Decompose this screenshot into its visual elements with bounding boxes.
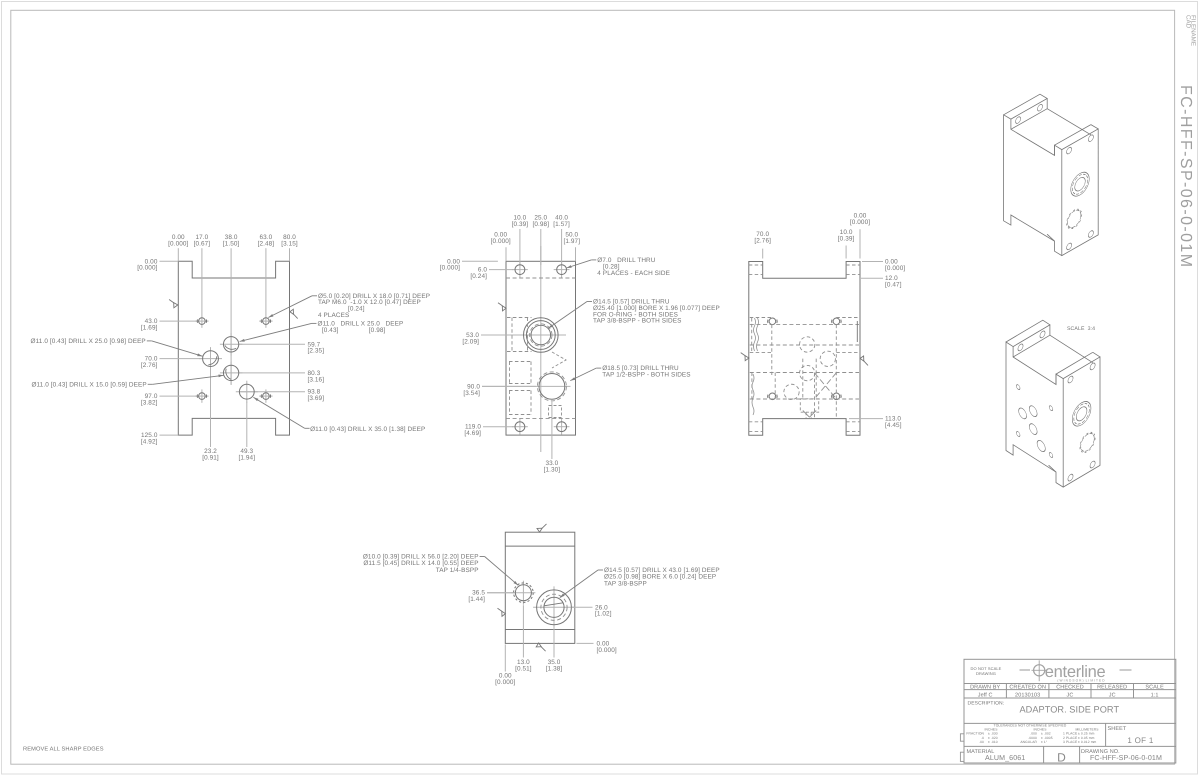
svg-text:[2.48]: [2.48] [258,240,275,247]
iso view 2 port1 o-ring port [1072,397,1091,430]
bottom view left surface flag [502,611,506,616]
iso view 2 top ear edges [1006,320,1050,346]
svg-text:[1.30]: [1.30] [544,466,561,473]
svg-text:3 PLACE: 3 PLACE [1063,740,1078,744]
svg-text:[0.39]: [0.39] [512,221,529,228]
centerline logo [1020,669,1031,671]
front view leader to M6 hole [312,295,317,297]
iso view 1 top ear edges [1004,94,1048,119]
svg-text:[0.000]: [0.000] [850,219,870,226]
bottom view leader to port1 [480,556,485,558]
iso view 1 outline [1004,115,1099,256]
svg-text:FC-HFF-SP-06-0-01M: FC-HFF-SP-06-0-01M [1177,85,1194,268]
back view hidden tap box small [800,399,818,412]
front view leader to O11 hole (38,80.3) [148,383,153,385]
bottom view outline [505,532,575,643]
svg-text:± .010: ± .010 [988,740,998,744]
side port view port1 O-ring bore circles [524,318,559,353]
svg-text:[1.02]: [1.02] [595,611,612,618]
svg-text:[0.98]: [0.98] [533,221,550,228]
iso view 1 port face bolt holes [1067,146,1072,155]
back view hidden lines in tabs [749,264,763,266]
svg-text:SCALE 3:4: SCALE 3:4 [1067,326,1095,332]
svg-text:TAP 3/8-BSPP - BOTH SIDES: TAP 3/8-BSPP - BOTH SIDES [593,318,681,325]
svg-text:[2.76]: [2.76] [141,362,158,369]
iso view 1 ear wall bolt hole exits [1016,116,1021,125]
svg-text:[3.54]: [3.54] [463,390,480,397]
front view outline [178,261,289,435]
front view leader to O11 hole (49.3,93.8) [305,427,310,429]
bottom view top surface flag [537,528,542,532]
iso view 2 front face holes [1016,384,1020,391]
svg-text:FC-HFF-SP-06-0-01M: FC-HFF-SP-06-0-01M [1090,754,1162,762]
back view hidden port lines [750,324,859,326]
svg-text:[0.98]: [0.98] [369,327,386,334]
back view break lines [754,318,756,351]
svg-text:20130103: 20130103 [1015,693,1040,699]
svg-text:1 OF 1: 1 OF 1 [1127,736,1154,745]
svg-text:FILENAME: FILENAME [1190,15,1197,46]
svg-text:JC: JC [1109,693,1116,699]
bottom view dim 13.0 [522,605,524,657]
svg-text:[4.45]: [4.45] [885,422,902,429]
svg-text:TAP 1/4-BSPP: TAP 1/4-BSPP [436,567,479,574]
svg-text:[0.000]: [0.000] [137,265,157,272]
iso view 1 port2 tapped port [1067,207,1080,230]
side port view leader to O7 hole [591,259,596,261]
side port view leader to port1 [587,301,592,303]
svg-text:[0.000]: [0.000] [597,647,617,654]
side port view centerlines port2 [482,385,571,387]
title block bottom column lines [1043,746,1045,763]
back view hidden vertical drill small [802,359,804,399]
back view right surface flag [860,356,864,361]
side port view centerlines port1 [481,334,566,336]
svg-text:[4.92]: [4.92] [141,438,158,445]
fold marks [960,734,964,741]
svg-text:± 1°: ± 1° [1041,740,1048,744]
iso view 1 front vertical edge [1061,150,1063,256]
back view hidden drill tip cross [815,373,837,399]
iso view 2 ear wall bolt hole exits [1018,343,1023,352]
svg-text:[1.57]: [1.57] [553,221,570,228]
bottom view dim 36.5 [487,592,515,594]
front view right surface flag [290,309,294,314]
svg-text:RELEASED: RELEASED [1097,685,1127,691]
bottom view bottom surface flag [536,643,541,647]
title block row lines [964,683,1176,685]
iso view 2 port2 tapped port [1081,430,1095,454]
side port view left dimension lines [462,260,498,262]
bottom view dim 0.00 right [576,642,593,644]
side port view hidden port arrow outline [549,406,562,418]
side port view surface flag [502,306,506,311]
svg-text:[2.09]: [2.09] [462,338,479,345]
title block sheet column line [1105,723,1107,746]
title block outer box [964,659,1176,763]
svg-text:SCALE: SCALE [1145,685,1164,691]
bottom view dim 26.0 [572,606,593,608]
svg-text:[0.000]: [0.000] [495,679,515,686]
svg-text:[0.43]: [0.43] [322,327,339,334]
svg-text:ADAPTOR. SIDE PORT: ADAPTOR. SIDE PORT [1020,705,1120,715]
iso view 2 front vertical edge [1062,379,1064,488]
svg-text:REMOVE ALL SHARP EDGES: REMOVE ALL SHARP EDGES [23,747,104,753]
back view hidden manifold circles [800,337,815,352]
svg-text:[0.000]: [0.000] [885,265,905,272]
svg-text:[0.67]: [0.67] [194,240,211,247]
svg-text:1:1: 1:1 [1151,693,1159,699]
svg-text:4 PLACES: 4 PLACES [318,312,349,319]
side port view leader to port2 [596,367,601,369]
back view top extension lines [762,249,764,259]
side port view hidden manifold lines [507,317,532,319]
svg-text:[2.76]: [2.76] [754,237,771,244]
svg-text:± 0.012 mm: ± 0.012 mm [1078,740,1097,744]
svg-text:TOLERANCES NOT OTHERWISE SPECI: TOLERANCES NOT OTHERWISE SPECIFIED [994,724,1067,728]
side port view bottom extension line 33.0 [551,402,553,459]
bottom view step edge lines [505,545,575,547]
svg-text:[0.24]: [0.24] [470,273,487,280]
side port view corner holes O7 [512,269,528,271]
iso view 2 outline [1006,342,1100,487]
back view outline [749,262,860,436]
iso view 2 bottom notch inner edge [1049,465,1056,472]
svg-text:4 PLACES - EACH SIDE: 4 PLACES - EACH SIDE [597,270,670,277]
back view hidden vertical drill large [814,373,816,417]
front view M6 tapped holes [195,320,208,322]
svg-text:ALUM_6061: ALUM_6061 [985,754,1025,762]
svg-text:[3.16]: [3.16] [308,376,325,383]
svg-text:CHECKED: CHECKED [1056,685,1084,691]
svg-text:D: D [1057,751,1066,765]
svg-text:[3.82]: [3.82] [141,400,158,407]
svg-text:TAP 1/2-BSPP - BOTH SIDES: TAP 1/2-BSPP - BOTH SIDES [602,372,690,379]
back view small tapped holes [769,318,776,325]
svg-text:[1.69]: [1.69] [141,325,158,332]
svg-text:Ø11.0 [0.43] DRILL X 35.0 [1.3: Ø11.0 [0.43] DRILL X 35.0 [1.38] DEEP [310,426,425,433]
side port view outline [506,261,576,435]
svg-text:Jeff C: Jeff C [978,693,993,699]
svg-text:[1.44]: [1.44] [468,596,485,603]
side port view port2 circles [539,374,565,400]
front view O11 drilled holes [220,343,243,345]
front view right dimension lines [239,343,305,345]
iso view 1 bottom notch inner edge [1047,234,1054,241]
side port view top extension lines [505,247,507,261]
front view left dimension lines [160,260,179,262]
bottom view port 1/4-BSPP circles [515,585,531,601]
svg-text:[0.91]: [0.91] [202,454,219,461]
svg-text:[1.50]: [1.50] [223,240,240,247]
svg-text:[0.39]: [0.39] [838,235,855,242]
bottom view port 1/4-BSPP centerlines [487,592,515,594]
svg-text:( W I N D S O R ) L I M I T E: ( W I N D S O R ) L I M I T E D [1057,679,1105,683]
svg-text:[0.51]: [0.51] [515,665,532,672]
svg-text:Ø11.0 [0.43] DRILL X 25.0 [0.9: Ø11.0 [0.43] DRILL X 25.0 [0.98] DEEP [31,338,146,345]
bottom view dim 0.00 left [504,644,506,671]
svg-text:[0.47]: [0.47] [885,282,902,289]
svg-text:[4.69]: [4.69] [464,430,481,437]
svg-text:[0.000]: [0.000] [491,238,511,245]
iso view 1 port1 o-ring port [1071,168,1089,200]
back view hidden verticals under bolt circles [771,325,773,375]
bottom view dim 35.0 [553,628,555,657]
iso view 1 right ear edges [1055,125,1091,146]
svg-text:[3.15]: [3.15] [281,240,298,247]
svg-text:CREATED ON: CREATED ON [1009,685,1046,691]
svg-text:DRAWING: DRAWING [976,671,996,676]
svg-text:DRAWN BY: DRAWN BY [970,685,1000,691]
svg-text:[0.000]: [0.000] [168,240,188,247]
front view top extension lines [177,248,179,261]
iso view 2 port face bolt holes [1068,375,1073,384]
svg-text:Ø11.0 [0.43] DRILL X 15.0 [0.5: Ø11.0 [0.43] DRILL X 15.0 [0.59] DEEP [31,381,146,388]
back view left surface flag [745,356,749,361]
iso view 2 right ear edges [1056,352,1093,374]
bottom view port 3/8-BSPP centerlines [533,606,575,608]
svg-text:[3.69]: [3.69] [308,395,325,402]
front view left surface flag [174,303,178,308]
front view leader to O11 hole (38,59.7) [312,322,317,324]
svg-text:[0.000]: [0.000] [440,265,460,272]
front view bottom extension lines [210,369,212,447]
bottom view port 3/8-BSPP circles [537,590,572,625]
front view leader to O11 hole (23.2,70) [147,340,152,342]
svg-text:SHEET: SHEET [1108,726,1127,732]
svg-text:TAP 3/8-BSPP: TAP 3/8-BSPP [604,580,647,587]
svg-text:.00: .00 [979,740,984,744]
svg-text:JC: JC [1067,693,1074,699]
svg-text:[1.97]: [1.97] [564,238,581,245]
svg-text:[0.24]: [0.24] [348,306,365,313]
svg-text:TAP M6.0 -1.0 X 12.0 [0.47] D: TAP M6.0 -1.0 X 12.0 [0.47] DEEP [318,299,421,306]
svg-text:[1.94]: [1.94] [239,454,256,461]
svg-text:ANGULAR: ANGULAR [1020,740,1037,744]
back view hidden box left [751,318,753,352]
back view hidden bore edge lines [750,317,772,319]
back view bore edge solid mark [856,321,858,342]
bottom view port spiral chord [544,603,563,606]
side port view hidden step lines [506,277,576,279]
svg-text:DESCRIPTION:: DESCRIPTION: [968,701,1005,707]
svg-text:[1.38]: [1.38] [546,665,563,672]
title block header column lines [1005,684,1007,699]
bottom view leader to port2 [598,569,603,571]
back view right dimension lines [862,261,883,263]
svg-text:[2.35]: [2.35] [308,348,325,355]
